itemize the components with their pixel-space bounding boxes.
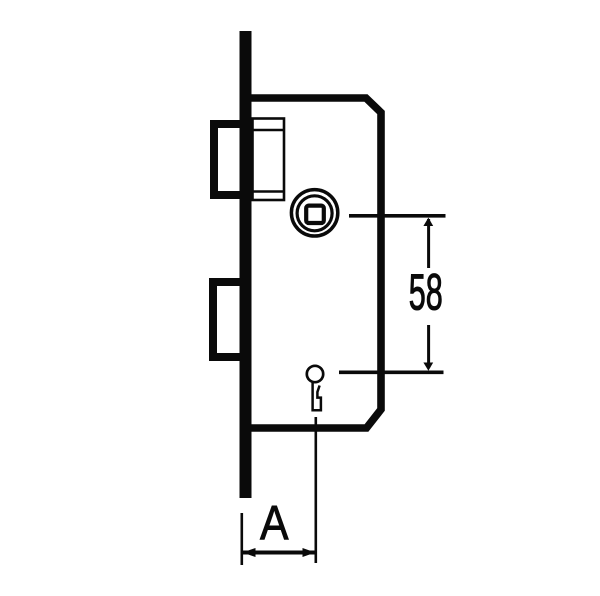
keyhole circle (307, 366, 323, 382)
latch bolt (top, protruding left of faceplate) (214, 124, 248, 195)
dimension A: right extension line (from keyhole down) (314, 417, 317, 563)
deadbolt (lower, protruding left of faceplate) (213, 282, 246, 357)
latch body (inside case) (253, 119, 285, 201)
svg-text:58: 58 (409, 264, 443, 321)
dimension A: left extension tick (241, 513, 244, 565)
spindle hub inner circle (297, 196, 332, 231)
svg-text:A: A (260, 497, 289, 550)
latch body inner line bottom (253, 190, 285, 192)
dimension A: right arrowhead (points right) (303, 548, 316, 557)
dimension A: horizontal dimension line (243, 551, 315, 555)
keyhole stem (313, 382, 321, 411)
faceplate (vertical bar) (240, 31, 252, 498)
spindle hub outer circle (291, 190, 337, 236)
dimension 58: vertical line upper segment (427, 219, 430, 268)
lock body outline (242, 98, 381, 428)
dimension 58: vertical line lower segment (427, 325, 430, 368)
dimension 58: bottom extension line (339, 370, 444, 374)
latch body inner line top (253, 129, 285, 131)
dimension 58: top extension line (349, 214, 446, 218)
spindle square hole (306, 206, 324, 223)
dimension 58: lower arrowhead (points down) (423, 363, 433, 371)
dimension 58: upper arrowhead (points up) (423, 218, 433, 226)
dimension A: left arrowhead (points left) (243, 548, 256, 557)
